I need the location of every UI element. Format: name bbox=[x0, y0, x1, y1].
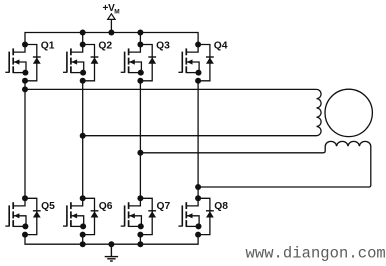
svg-text:Q7: Q7 bbox=[157, 201, 171, 212]
transistor Q3 bbox=[121, 42, 144, 76]
diode: body diode of Q1 bbox=[22, 45, 41, 84]
diode: body diode of Q8 bbox=[195, 198, 214, 237]
node: phase A+ output junction on column 1 bbox=[22, 86, 28, 92]
node: phase B- output junction on column 4 bbox=[195, 184, 201, 190]
node: ground rail junction at column 2 bbox=[80, 241, 86, 247]
wire: column 2 drop to ground rail bbox=[82, 235, 84, 245]
node: ground rail junction at column 3 bbox=[137, 241, 143, 247]
diode: body diode of Q3 bbox=[137, 45, 156, 84]
diode: body diode of Q6 bbox=[80, 198, 99, 237]
transistor Q8 bbox=[178, 195, 201, 229]
node: rail junction at Q2 drain column bbox=[80, 30, 86, 36]
wire: column 2 link (Q2 source to Q6 drain) bbox=[82, 81, 84, 199]
svg-text:www.diangon.com: www.diangon.com bbox=[246, 244, 386, 262]
transistor Q6 bbox=[63, 195, 86, 229]
diode: body diode of Q4 bbox=[195, 45, 214, 84]
diode: body diode of Q2 bbox=[80, 45, 99, 84]
wire: column 3 drop to ground rail bbox=[139, 235, 141, 245]
transistor Q2 bbox=[63, 42, 86, 76]
wire: column 4 link (Q4 source to Q8 drain) bbox=[197, 81, 199, 199]
wire: column 3 link (Q3 source to Q7 drain) bbox=[139, 81, 141, 199]
ground bbox=[105, 244, 118, 261]
wire: +VM supply stem bbox=[110, 19, 112, 32]
node: ground tap junction bbox=[108, 241, 114, 247]
transistor Q5 bbox=[5, 195, 28, 229]
node: rail junction at Q3 drain column bbox=[137, 30, 143, 36]
transistor Q1 bbox=[5, 42, 28, 76]
svg-text:Q3: Q3 bbox=[156, 40, 170, 51]
wire: ground rail bbox=[25, 235, 198, 245]
svg-text:M: M bbox=[114, 9, 119, 16]
wire: phase A wiring with motor winding A (vertical coil) bbox=[25, 89, 321, 135]
node: phase B+ output junction on column 3 bbox=[137, 150, 143, 156]
diode: body diode of Q5 bbox=[22, 198, 41, 237]
svg-text:Q8: Q8 bbox=[214, 201, 228, 212]
svg-text:Q5: Q5 bbox=[41, 201, 55, 212]
svg-text:Q6: Q6 bbox=[99, 201, 113, 212]
wire: phase B wiring with motor winding B (horizontal coil) bbox=[140, 141, 370, 187]
power symbol: +VM supply arrow bbox=[108, 14, 115, 20]
motor: stepper motor body M bbox=[325, 89, 372, 136]
diode: body diode of Q7 bbox=[137, 198, 156, 237]
node: rail junction at +VM feed bbox=[108, 30, 114, 36]
svg-text:Q4: Q4 bbox=[214, 40, 228, 51]
svg-text:Q2: Q2 bbox=[98, 40, 112, 51]
transistor Q4 bbox=[178, 42, 201, 76]
wire: Q2 drain drop from rail bbox=[82, 33, 84, 45]
node: phase A- output junction on column 2 bbox=[80, 133, 86, 139]
transistor Q7 bbox=[121, 195, 144, 229]
svg-text:Q1: Q1 bbox=[41, 40, 55, 51]
wire: +VM top supply rail bbox=[25, 33, 198, 45]
wire: column 1 link (Q1 source to Q5 drain) bbox=[24, 81, 26, 199]
wire: Q3 drain drop from rail bbox=[139, 33, 141, 45]
